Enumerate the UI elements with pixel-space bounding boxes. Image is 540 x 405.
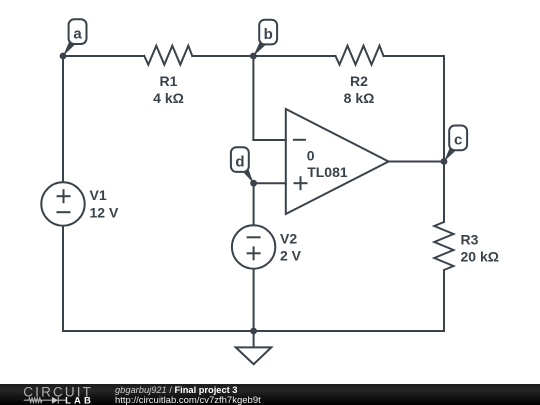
svg-text:b: b (264, 26, 273, 43)
svg-text:d: d (235, 153, 244, 170)
svg-text:TL081: TL081 (307, 164, 348, 180)
voltage source V2 circle (232, 225, 275, 268)
svg-text:20 kΩ: 20 kΩ (461, 249, 499, 265)
wire node b to R2 left lead (253, 55, 335, 57)
svg-text:R3: R3 (461, 232, 479, 248)
wire V1 bottom to bottom-left corner (62, 226, 64, 331)
svg-text:8 kΩ: 8 kΩ (344, 90, 375, 106)
ground symbol (236, 331, 272, 364)
svg-text:V2: V2 (280, 231, 297, 247)
node d junction dot (250, 180, 257, 187)
op-amp inverting input marker (minus) (293, 139, 306, 141)
svg-text:c: c (454, 132, 462, 149)
wire bottom: right segment (ground junction to bottom-right corner) (254, 330, 444, 332)
wire node a to R1 left lead (63, 55, 144, 57)
wire V2 bottom to ground junction (253, 268, 255, 331)
resistor R1 zigzag (144, 46, 192, 65)
wire left vertical: node a down to V1 top (62, 56, 64, 182)
V1 minus marker (57, 211, 71, 213)
svg-text:2 V: 2 V (280, 248, 302, 264)
wire op-amp output to node c (389, 161, 445, 163)
wire into op-amp inverting input (253, 139, 285, 141)
svg-text:V1: V1 (90, 187, 107, 203)
V2 plus marker (247, 246, 261, 260)
wire R1 right lead to node b (192, 55, 253, 57)
wire right vertical: top-right corner down to node c (443, 56, 445, 162)
svg-text:12 V: 12 V (90, 205, 119, 221)
svg-text:a: a (73, 26, 82, 43)
footer black bar (0, 384, 540, 405)
node c junction dot (441, 158, 448, 165)
op-amp non-inverting input marker (plus) (294, 176, 308, 190)
node b flag (253, 20, 277, 56)
svg-text:R2: R2 (350, 73, 368, 89)
wire node b down toward op-amp inverting input (252, 56, 254, 140)
footer attribution line 2 (115, 396, 261, 405)
wire node d down to V2 top (253, 183, 255, 226)
resistor R2 zigzag (336, 46, 384, 65)
voltage source V1 circle (41, 182, 84, 225)
node a junction dot (60, 53, 67, 60)
CircuitLab logo (20, 384, 100, 405)
node b junction dot (250, 53, 257, 60)
V2 minus marker (247, 236, 261, 238)
node a flag (63, 19, 87, 56)
wire bottom: left segment (bottom-left corner to ground junction) (63, 330, 254, 332)
svg-text:4 kΩ: 4 kΩ (153, 90, 184, 106)
node d flag (231, 147, 254, 183)
wire R3 bottom lead to bottom-right corner (443, 270, 445, 331)
svg-text:LAB: LAB (65, 395, 91, 405)
wire R2 right lead to top-right corner (384, 55, 445, 57)
wire node c down to R3 top lead (443, 162, 445, 223)
resistor R3 zigzag (434, 222, 453, 270)
ground junction dot (250, 328, 257, 335)
svg-text:0: 0 (307, 148, 315, 164)
node c flag (444, 126, 467, 162)
footer attribution line 1 (115, 386, 237, 395)
wire node d to op-amp non-inverting input (254, 182, 286, 184)
svg-text:R1: R1 (160, 73, 178, 89)
op-amp U1 TL081 triangle body (286, 109, 389, 214)
V1 plus marker (57, 189, 71, 203)
